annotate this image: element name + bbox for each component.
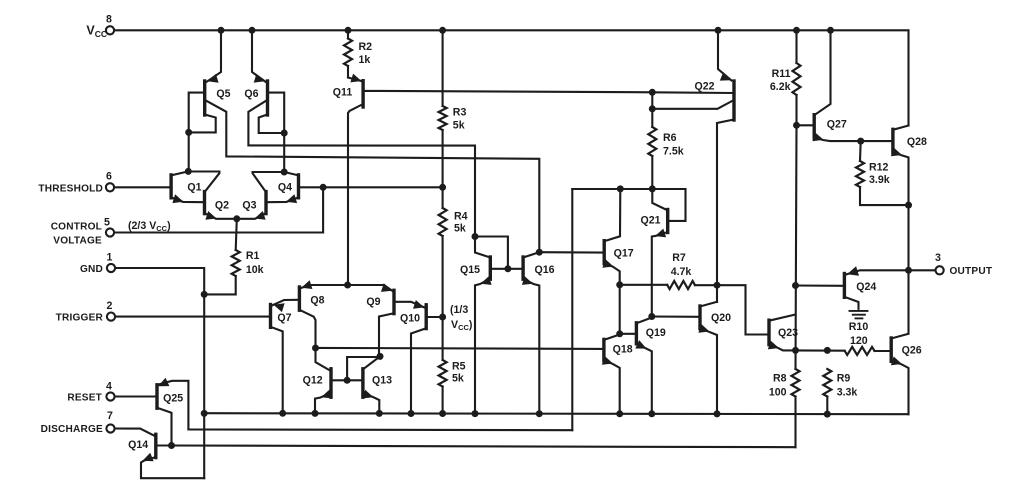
terminal pin 7 DISCHARGE	[106, 424, 114, 432]
svg-text:Q9: Q9	[366, 296, 380, 308]
transistor Q16 bar	[521, 257, 524, 279]
transistor Q5 bar	[203, 81, 206, 115]
node Q17 collector on Q21 net	[617, 185, 624, 192]
wire Q14 base	[157, 444, 171, 446]
wire Q4 base to control node	[300, 186, 323, 188]
wire Q2 emitter to common node	[205, 213, 237, 219]
node Q3-Q4 collectors / Q6 base	[281, 169, 288, 176]
svg-text:Q22: Q22	[694, 81, 714, 93]
svg-text:Q13: Q13	[372, 374, 392, 386]
svg-text:VOLTAGE: VOLTAGE	[53, 236, 102, 247]
wire Q21 emitter down to Q19 collector node	[652, 232, 668, 317]
wire Q10 base to 1/3Vcc node	[428, 316, 443, 318]
node R6 bottom on Q21 net	[649, 185, 656, 192]
wire Q26 emitter down to rail corner	[891, 361, 908, 414]
svg-text:THRESHOLD: THRESHOLD	[38, 183, 103, 194]
wire Q20 emitter down to rail	[700, 328, 717, 414]
junction on Vcc rail	[345, 27, 352, 34]
resistor R6 7.5k	[651, 92, 653, 127]
svg-text:Q12: Q12	[303, 374, 323, 386]
node output junction	[905, 267, 912, 274]
svg-text:Q6: Q6	[244, 88, 258, 100]
node Q12-Q13 bases	[344, 377, 351, 384]
svg-text:5k: 5k	[453, 120, 465, 132]
node Q16 collector / Q17 base	[536, 249, 543, 256]
resistor R4 5k	[442, 187, 444, 208]
svg-text:RESET: RESET	[67, 392, 102, 403]
transistor Q8 bar	[298, 287, 301, 310]
node Q6 base / collector2 junction	[281, 130, 288, 137]
node R7 / Q22 collector / Q23 branch	[714, 282, 721, 289]
node rail junction Q13 emitter	[376, 410, 383, 417]
wire Q12 collector up to Q8 node	[316, 348, 331, 371]
svg-text:5k: 5k	[454, 223, 466, 235]
wire Q2 collector up crossover to node	[190, 172, 219, 193]
node Q19 collector / Q21 emitter / Q20 base	[648, 313, 655, 320]
node Q15 collector junction	[472, 233, 479, 240]
node Q17 emitter / R7 / Q18 collector	[616, 281, 623, 288]
wire Q15 emitter down to rail	[475, 279, 490, 414]
wire emitter rail	[204, 413, 908, 414]
terminal pin 8 Vcc	[106, 26, 114, 34]
svg-text:3.9k: 3.9k	[869, 174, 890, 186]
wire Q15 collector up	[475, 237, 490, 258]
node rail junction Q16 emitter	[536, 410, 543, 417]
wire Q7 collector down to rail	[271, 327, 283, 414]
node rail tap at gnd column	[201, 410, 208, 417]
resistor R10 120	[845, 347, 875, 355]
node rail junction Q20 emitter	[714, 410, 721, 417]
node rail junction Q19 emitter	[648, 410, 655, 417]
wire output node to pin 3	[909, 269, 936, 271]
wire Q5 base left and down	[189, 93, 204, 172]
wire Q4 base node to R3-R4 junction	[323, 186, 443, 188]
node rail junction Q12 emitter	[312, 410, 319, 417]
node Q1-Q2 collectors / Q5 base	[185, 168, 192, 175]
wire Q21 collector from net	[652, 189, 666, 210]
node R9 top	[824, 347, 831, 354]
terminal pin 6 THRESHOLD	[106, 183, 114, 191]
transistor Q10 bar	[425, 305, 428, 329]
wire Q28 collector up	[893, 126, 909, 130]
wire Q9 base to Q10 emitter	[395, 302, 424, 308]
svg-text:R2: R2	[359, 41, 373, 53]
node Q4 base / control voltage	[320, 184, 327, 191]
wire node to R7	[620, 284, 668, 286]
wire Q25 collector down to Q14 base	[157, 408, 172, 446]
wire Q17-emitter node down to Q18	[619, 285, 621, 334]
svg-text:1k: 1k	[359, 54, 371, 66]
transistor Q20 bar	[698, 306, 701, 329]
svg-text:R8: R8	[773, 373, 787, 385]
wire Q13 emitter down to rail	[363, 393, 379, 414]
svg-text:4: 4	[106, 381, 112, 393]
svg-text:Q5: Q5	[216, 88, 230, 100]
transistor Q5 emitter from Vcc	[207, 30, 221, 81]
node rail junction Q15 emitter	[472, 410, 479, 417]
svg-text:Q14: Q14	[128, 439, 148, 451]
node rail junction Q7 collector	[279, 410, 286, 417]
node R4-R5 junction (1/3 Vcc) at Q10 base	[439, 314, 446, 321]
svg-text:7: 7	[107, 410, 113, 422]
svg-text:Q11: Q11	[333, 87, 353, 99]
wire Q6 collector 2 hook to base	[259, 115, 284, 133]
node R11 bottom / Q27 base	[793, 122, 800, 129]
svg-text:Q26: Q26	[902, 345, 922, 357]
wire Q27 base	[797, 124, 813, 126]
svg-text:Q17: Q17	[614, 248, 634, 260]
node Q2-Q3 common emitters to R1	[233, 215, 240, 222]
junction on Vcc rail	[439, 27, 446, 34]
svg-text:Q20: Q20	[711, 312, 731, 324]
wire Q20 base	[652, 315, 699, 317]
terminal pin 5 CONTROL VOLTAGE	[106, 228, 114, 236]
wire Q24 collector to ground	[844, 297, 858, 309]
transistor Q23 bar	[767, 320, 770, 344]
transistor Q9 bar	[392, 290, 395, 313]
wire Q3 emitter to common node	[237, 213, 266, 219]
svg-text:5k: 5k	[452, 373, 464, 385]
wire Q27 emitter to Q28 base	[814, 137, 891, 141]
wire Q5 collector 2 hook to base	[189, 115, 216, 133]
junction on Vcc rail	[218, 27, 225, 34]
svg-text:R10: R10	[849, 321, 869, 333]
svg-text:Q1: Q1	[187, 182, 201, 194]
junction on Vcc rail	[827, 27, 834, 34]
wire Q16 collector up to node	[523, 252, 539, 257]
wire node to bases bracket	[475, 237, 508, 269]
wire Q6 base right and down	[269, 93, 284, 172]
wire Q4 emitter to Q3 base	[268, 197, 299, 202]
wire Q12-Q13 base link	[332, 379, 361, 381]
svg-text:6.2k: 6.2k	[770, 81, 791, 93]
transistor Q24 bar	[843, 274, 846, 298]
wire Q16 collector node to Q17 base	[539, 251, 603, 254]
wire pin6 to Q1 base	[115, 186, 170, 188]
wire base node up to Q13 collector node	[347, 357, 380, 380]
terminal pin 4 RESET	[106, 392, 114, 400]
wire Q19 collector up to node	[636, 318, 651, 324]
node Q18 collector / Q19 base	[616, 330, 623, 337]
transistor Q11 (PNP) emitter from R2	[348, 78, 362, 82]
wire Q25 emitter bracket to Q21 riser	[159, 381, 573, 430]
terminal pin 3 OUTPUT	[936, 266, 944, 274]
wire Q9 collector down to Q13 node	[379, 313, 394, 356]
svg-text:Q21: Q21	[640, 214, 660, 226]
transistor Q6 bar	[266, 81, 269, 115]
node Q24 base tap	[792, 282, 799, 289]
wire Q11 base to R6 top and Q22 base	[365, 91, 653, 92]
node Q8-Q9 emitters from Q11	[344, 282, 351, 289]
transistor Q6 emitter from Vcc	[252, 30, 265, 81]
wire Q24 base from R11 net	[796, 284, 844, 286]
wire Q20 collector up	[700, 302, 717, 307]
node rail junction R5 bottom	[439, 410, 446, 417]
svg-text:Q27: Q27	[827, 119, 847, 131]
node R12 bottom on output net	[905, 202, 912, 209]
resistor R9 3.3k	[823, 369, 831, 397]
svg-text:TRIGGER: TRIGGER	[56, 312, 104, 323]
wire Q1 emitter to Q2 base	[171, 197, 203, 202]
terminal pin 1 GND	[107, 264, 115, 272]
resistor R8 100	[792, 369, 800, 397]
transistor Q12 bar	[329, 369, 332, 397]
transistor Q18 bar	[602, 339, 605, 360]
svg-text:Q8: Q8	[310, 294, 324, 306]
wire riser from Q25 line to Q21 net	[571, 189, 573, 430]
wire Vcc top rail from pin 8 across to right edge corner	[115, 30, 909, 125]
svg-text:R7: R7	[672, 252, 686, 264]
ground symbol	[850, 310, 868, 312]
wire Q5 collector 1 crossover to Q16 side	[206, 100, 540, 252]
svg-text:8: 8	[106, 14, 112, 26]
svg-text:3.3k: 3.3k	[837, 387, 858, 399]
wire R7 to Q20-Q22 node	[695, 284, 717, 286]
wire Q8 emitter from center node	[301, 285, 348, 288]
transistor Q1 bar	[169, 175, 172, 198]
wire R7 node to Q23 base	[717, 285, 768, 334]
node Q8 collector / long wire / Q12 collector	[312, 345, 319, 352]
svg-text:1: 1	[107, 252, 113, 264]
svg-text:R11: R11	[772, 68, 791, 80]
wire Q15-Q16 base link	[492, 268, 522, 270]
node rail junction Q10 collector	[408, 410, 415, 417]
wire Q22 collector down	[717, 120, 734, 303]
node R3-R4 junction	[439, 184, 446, 191]
transistor Q2 bar	[203, 192, 206, 214]
transistor Q14 bar	[154, 434, 157, 457]
wire Q14 emitter to gnd bracket	[141, 457, 204, 478]
wire Q17 emitter down to R7 node	[604, 263, 620, 285]
wire pin2 to Q7 base	[116, 316, 270, 318]
transistor Q22 bar	[732, 81, 735, 120]
resistor R3 5k	[442, 30, 444, 106]
svg-text:DISCHARGE: DISCHARGE	[41, 424, 103, 435]
svg-text:4.7k: 4.7k	[671, 266, 692, 278]
wire Q13 collector to node	[364, 356, 380, 368]
wire R10 to Q26 base	[875, 350, 890, 352]
wire Q23 emitter line to R10	[796, 349, 845, 351]
svg-text:7.5k: 7.5k	[663, 146, 684, 158]
wire Q11 collector down	[348, 104, 363, 285]
transistor Q11 bar	[361, 81, 364, 107]
resistor R11 6.2k	[795, 30, 797, 63]
svg-text:100: 100	[769, 387, 787, 399]
svg-text:GND: GND	[80, 264, 103, 275]
wire Q19 emitter down to rail	[636, 343, 651, 414]
svg-text:Q24: Q24	[856, 281, 876, 293]
terminal pin 2 TRIGGER	[107, 313, 115, 321]
svg-text:Q2: Q2	[215, 199, 229, 211]
wire pin1 down the gnd column	[116, 268, 205, 478]
resistor R1 10k	[236, 219, 237, 250]
wire Q24 emitter from output line	[845, 270, 908, 274]
svg-text:R6: R6	[663, 132, 677, 144]
transistor Q13 bar	[361, 369, 364, 397]
transistor Q17 bar	[603, 241, 606, 264]
svg-text:10k: 10k	[246, 264, 264, 276]
wire Q17 collector up to Q21 line	[604, 189, 620, 241]
wire Q26 collector up to output node	[891, 334, 908, 339]
svg-text:Q19: Q19	[646, 327, 666, 339]
resistor R5 5k	[442, 317, 444, 360]
wire Q3 collector up crossover to node	[253, 172, 283, 192]
svg-text:Q25: Q25	[163, 393, 183, 405]
svg-text:120: 120	[850, 335, 868, 347]
svg-text:2: 2	[107, 300, 113, 312]
svg-text:Q10: Q10	[400, 312, 420, 324]
transistor Q22 emitter from Vcc	[718, 30, 732, 80]
wire Q23 emitter to R8-R9 line	[769, 344, 796, 350]
node R12 top on Q28 base line	[857, 138, 864, 145]
junction on Vcc rail	[715, 27, 722, 34]
wire pin7 to Q14 collector	[115, 429, 155, 436]
node Q23 emitter / R8 top	[792, 347, 799, 354]
svg-text:R1: R1	[246, 250, 260, 262]
svg-text:6: 6	[106, 171, 112, 183]
transistor Q21 bar	[666, 210, 669, 233]
svg-text:Q4: Q4	[278, 182, 292, 194]
wire Q28 emitter down to output net	[893, 152, 909, 333]
wire R11 net down to Q24 base node	[796, 125, 797, 369]
wire pin5 to Q4 base node	[115, 187, 324, 232]
node Q9-Q13 collectors	[377, 353, 384, 360]
svg-text:Q7: Q7	[277, 312, 291, 324]
svg-text:Q18: Q18	[613, 344, 633, 356]
wire Q18 emitter down to rail	[604, 360, 620, 414]
wire Q22 second collector	[652, 101, 733, 109]
svg-text:Q15: Q15	[460, 264, 480, 276]
junction on Vcc rail	[249, 27, 256, 34]
node rail junction R9 bottom	[824, 411, 831, 418]
wire Q16 emitter down to rail	[523, 279, 539, 414]
node rail junction Q18 emitter	[616, 410, 623, 417]
wire Q6 collector 1 crossover to Q15 side	[248, 100, 475, 236]
node Q11 base to R6 top	[649, 89, 656, 96]
wire pin4 to Q25 base	[115, 395, 156, 397]
svg-text:R12: R12	[869, 162, 889, 174]
wire Q4 collector up to node	[284, 172, 298, 175]
resistor R12 3.9k	[859, 141, 862, 161]
svg-text:5: 5	[104, 217, 110, 229]
transistor Q28 bar	[891, 129, 894, 152]
svg-text:3: 3	[935, 252, 941, 264]
svg-text:CONTROL: CONTROL	[51, 222, 102, 233]
svg-text:(1/3: (1/3	[450, 304, 468, 316]
transistor Q15 bar	[489, 257, 492, 279]
transistor Q19 bar	[635, 323, 638, 344]
wire Q9 emitter from center node	[348, 285, 393, 291]
wire long line Q8 mirror node to Q18 base	[316, 348, 603, 349]
node Q15-Q16 bases	[504, 265, 511, 272]
svg-text:R4: R4	[454, 211, 468, 223]
wire Q10 collector down to rail	[411, 328, 426, 414]
wire Q27 collector up to rail	[814, 30, 830, 115]
wire Q21 base bracket	[669, 189, 685, 221]
transistor Q27 bar	[813, 115, 816, 138]
svg-text:Q28: Q28	[907, 136, 927, 148]
wire Q7 emitter up to Q8 base	[272, 300, 298, 306]
svg-text:Q3: Q3	[242, 199, 256, 211]
wire Q14 base long line to R8 bottom	[172, 446, 796, 448]
transistor Q7 bar	[269, 305, 272, 328]
svg-text:Q16: Q16	[534, 264, 554, 276]
transistor Q25 bar	[155, 385, 158, 408]
wire Q21 base net horizontal	[572, 188, 685, 190]
wire Q12 emitter down to rail	[315, 393, 331, 414]
transistor Q3 bar	[264, 192, 267, 214]
node R1 to gnd line	[201, 291, 208, 298]
wire Q23 collector up to R11 net	[769, 315, 796, 321]
transistor Q26 bar	[890, 338, 893, 361]
svg-text:OUTPUT: OUTPUT	[950, 266, 993, 277]
svg-text:R3: R3	[453, 107, 467, 119]
transistor Q4 bar	[297, 175, 300, 198]
wire Q1 collector up to node	[171, 171, 188, 175]
resistor R7 4.7k	[667, 281, 695, 289]
wire Q18 collector up	[604, 334, 620, 340]
junction on Vcc rail	[793, 27, 800, 34]
svg-text:R5: R5	[452, 361, 466, 373]
svg-text:R9: R9	[837, 373, 851, 385]
node Q25 collector / Q14 base	[168, 442, 175, 449]
node Q22 second collector tap	[649, 105, 656, 112]
wire Q19 base	[620, 333, 635, 335]
resistor R2 1k	[347, 30, 349, 38]
node Q5 base / collector2 junction	[185, 129, 192, 136]
wire Q8 collector down to mirror node	[299, 310, 315, 348]
